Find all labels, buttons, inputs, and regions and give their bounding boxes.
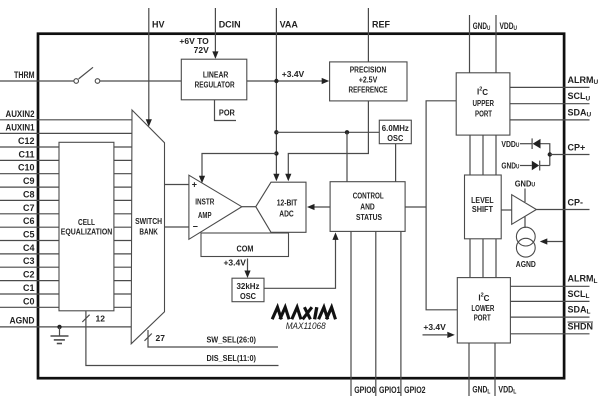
wire C0: [0, 306, 132, 308]
svg-text:DCIN: DCIN: [219, 20, 241, 30]
pin GPIO0 wire: [350, 231, 352, 396]
node VAA/6MHz junction: [274, 130, 278, 134]
wire AUXIN2: [0, 119, 132, 121]
wire THRM to linear regulator: [100, 80, 182, 82]
pin SDAL wire: [510, 316, 589, 318]
svg-text:AUXIN1: AUXIN1: [6, 122, 35, 132]
svg-text:12: 12: [96, 314, 106, 324]
pin SDAU wire: [510, 119, 590, 121]
svg-text:CONTROL: CONTROL: [353, 192, 384, 201]
svg-text:GPIO0: GPIO0: [354, 385, 376, 395]
wire GNDU to buffer: [524, 189, 526, 203]
pin GNDU wire: [469, 15, 471, 73]
svg-text:+2.5V: +2.5V: [359, 76, 378, 85]
pin CP- wire: [536, 209, 589, 211]
wire C10: [0, 173, 132, 175]
wire main vertical bus: [426, 101, 457, 310]
svg-text:GPIO1: GPIO1: [379, 385, 401, 395]
control and status block: [330, 182, 405, 232]
svg-text:CELL: CELL: [78, 218, 95, 227]
diode D2: [532, 161, 539, 170]
pin GNDL wire: [468, 343, 470, 396]
svg-text:+3.4V: +3.4V: [282, 69, 305, 79]
svg-text:C6: C6: [23, 216, 35, 226]
svg-text:REGULATOR: REGULATOR: [195, 81, 235, 90]
arrow into current source head: [540, 238, 548, 244]
svg-text:CP+: CP+: [568, 143, 586, 153]
pin SCLU wire: [510, 103, 590, 105]
wire VAA to 6MHz osc: [276, 131, 379, 133]
wire regulator output +3.4V: [247, 80, 324, 82]
svg-text:MAX11068: MAX11068: [286, 321, 327, 332]
wire upper port to level shift 2: [482, 135, 484, 175]
node VAA/amp junction: [274, 151, 278, 155]
svg-text:BANK: BANK: [139, 227, 158, 236]
wire control to ADC: [313, 206, 331, 208]
wire C9: [0, 186, 132, 188]
pin HV wire: [148, 8, 150, 120]
pin REF wire upper: [367, 8, 369, 62]
svg-text:C0: C0: [23, 296, 35, 306]
svg-text:+: +: [192, 180, 197, 190]
oscillator 32kHz: [232, 278, 264, 302]
svg-text:AUXIN2: AUXIN2: [6, 109, 35, 119]
svg-text:AMP: AMP: [198, 211, 212, 220]
pin GPIO1 wire: [375, 231, 377, 396]
svg-text:LOWER: LOWER: [471, 304, 494, 313]
pin SCLL wire: [510, 300, 589, 302]
wire switch bank to amp + input: [165, 184, 189, 186]
svg-text:AGND: AGND: [10, 315, 35, 325]
wire level shift to lower port 1: [469, 239, 471, 278]
wire REF lower segment: [288, 101, 368, 175]
op-amp INSTR AMP: [189, 175, 242, 239]
svg-text:C7: C7: [23, 203, 35, 213]
svg-text:UPPER: UPPER: [473, 99, 495, 108]
wire C1: [0, 293, 132, 295]
svg-text:C2: C2: [23, 270, 35, 280]
svg-text:AGND: AGND: [516, 259, 536, 269]
svg-text:C3: C3: [23, 256, 35, 266]
svg-text:REF: REF: [372, 20, 391, 30]
wire C11: [0, 159, 132, 161]
svg-text:SHIFT: SHIFT: [472, 205, 493, 214]
svg-text:LINEAR: LINEAR: [203, 70, 229, 79]
pin ALRMU wire: [510, 86, 590, 88]
arrow into ADC right: [307, 204, 315, 210]
chip outline border: [38, 34, 564, 379]
wire upper port to level shift 3: [495, 135, 497, 175]
wire 6MHz osc to control: [395, 144, 397, 182]
svg-text:27: 27: [156, 333, 166, 343]
wire buffer to current source: [524, 217, 526, 229]
pin GPIO2 wire: [400, 231, 402, 396]
wire C2: [0, 280, 132, 282]
logo MAXIM: [272, 307, 301, 319]
svg-text:STATUS: STATUS: [356, 213, 383, 222]
svg-text:12-BIT: 12-BIT: [277, 198, 298, 207]
svg-text:INSTR: INSTR: [195, 198, 214, 207]
node CP+ junction: [548, 152, 552, 156]
svg-text:+3.4V: +3.4V: [223, 258, 246, 268]
svg-text:C5: C5: [23, 230, 35, 240]
pin VDDU wire: [495, 15, 497, 73]
wire C5: [0, 240, 132, 242]
wire C6: [0, 226, 132, 228]
svg-text:DIS_SEL(11:0): DIS_SEL(11:0): [206, 354, 256, 363]
wire control right branch: [405, 206, 426, 208]
svg-text:PRECISION: PRECISION: [350, 65, 387, 74]
level shift block: [465, 175, 502, 239]
svg-text:SWITCH: SWITCH: [135, 217, 162, 226]
svg-text:72V: 72V: [194, 45, 209, 55]
svg-text:CP-: CP-: [568, 198, 584, 208]
node +3.4V junction on VAA: [274, 79, 278, 83]
pin VAA wire: [275, 8, 277, 175]
op-amp CP- buffer: [512, 195, 537, 225]
svg-text:C8: C8: [23, 189, 35, 199]
wire VAA to instr amp top: [202, 154, 276, 177]
arrow into switch bank (HV): [146, 119, 152, 127]
wire diode D2 to CP+ node: [540, 165, 550, 167]
svg-text:PORT: PORT: [475, 110, 492, 119]
arrow into lower port: [447, 332, 455, 338]
svg-text:C4: C4: [23, 243, 35, 253]
svg-text:ADC: ADC: [279, 209, 294, 218]
wire C4: [0, 253, 132, 255]
arrow into control bottom: [332, 232, 338, 240]
pin ALRML wire: [510, 285, 589, 287]
wire upper port to level shift 1: [469, 135, 471, 175]
arrow into linear regulator (DCIN): [212, 51, 218, 59]
pin THRM wire: [0, 80, 74, 82]
svg-text:AND: AND: [360, 203, 375, 212]
diode D1: [531, 138, 533, 149]
svg-text:VAA: VAA: [280, 20, 299, 30]
I2C upper port block: [456, 73, 510, 135]
wire cell-eq DIS_SEL bus: [86, 311, 279, 366]
svg-text:C11: C11: [18, 149, 34, 159]
I2C lower port block: [457, 278, 510, 343]
svg-text:32kHz: 32kHz: [237, 282, 260, 291]
svg-text:SW_SEL(26:0): SW_SEL(26:0): [206, 336, 256, 345]
wire POR stub: [215, 100, 237, 121]
svg-text:+3.4V: +3.4V: [423, 322, 446, 332]
svg-text:C9: C9: [23, 176, 35, 186]
svg-text:C10: C10: [18, 163, 35, 173]
wire level shift to buffer: [501, 209, 512, 211]
cell equalization block: [59, 142, 114, 310]
wire 32kHz to control: [264, 239, 336, 289]
svg-text:HV: HV: [152, 20, 165, 30]
node 6MHz/control junction: [345, 130, 349, 134]
wire C3: [0, 266, 132, 268]
wire to diode D2: [520, 165, 532, 167]
svg-text:ALRML: ALRML: [568, 274, 598, 285]
svg-text:PORT: PORT: [474, 313, 491, 322]
svg-text:I2C: I2C: [477, 87, 488, 97]
current source I1: [516, 227, 535, 246]
bus-width slash 12: [82, 315, 89, 322]
wire diode D1 to CP+ node: [541, 144, 550, 166]
pin CP+ wire: [550, 154, 590, 156]
pin VDDL wire: [494, 343, 496, 396]
switch bank block: [131, 110, 164, 344]
wire SW_SEL bus: [148, 330, 278, 347]
wire +3.4V to 32kHz osc: [247, 259, 249, 272]
svg-text:THRM: THRM: [14, 70, 35, 80]
svg-text:I2C: I2C: [478, 293, 489, 303]
svg-text:C1: C1: [23, 283, 35, 293]
ADC 12-BIT block: [256, 182, 306, 232]
wire arrow into current source: [546, 241, 563, 243]
precision reference U3: [330, 62, 407, 101]
svg-text:GPIO2: GPIO2: [404, 385, 426, 395]
bus-width slash 27: [145, 334, 152, 341]
wire C8: [0, 199, 132, 201]
svg-text:COM: COM: [237, 244, 254, 253]
wire amp output to ADC: [242, 206, 256, 208]
node AGND junction: [57, 325, 61, 329]
wire switch bank to amp - input: [165, 226, 189, 228]
pin SHDN wire: [510, 333, 589, 335]
wire level shift to lower port 2: [482, 239, 484, 278]
svg-text:OSC: OSC: [240, 292, 256, 301]
wire AGND: [0, 326, 132, 328]
arrow into 32kHz osc: [244, 271, 250, 279]
COM block: [201, 233, 289, 257]
linear regulator U2: [181, 59, 247, 100]
arrow into ADC top (REF): [285, 174, 291, 182]
wire to diode D1: [520, 143, 532, 145]
svg-text:LEVEL: LEVEL: [471, 196, 494, 205]
wire C12: [0, 146, 132, 148]
svg-text:POR: POR: [219, 109, 235, 118]
arrow into precision reference: [322, 78, 330, 84]
arrow into instr amp top: [199, 176, 205, 184]
wire AUXIN1: [0, 132, 132, 134]
svg-text:−: −: [193, 222, 198, 232]
wire level shift to lower port 3: [495, 239, 497, 278]
svg-text:OSC: OSC: [387, 134, 403, 143]
wire C7: [0, 213, 132, 215]
svg-text:REFERENCE: REFERENCE: [349, 86, 389, 95]
pin DCIN wire: [214, 8, 216, 53]
svg-text:C12: C12: [18, 136, 35, 146]
svg-text:SHDN: SHDN: [568, 322, 594, 332]
switch S1: [79, 67, 93, 79]
svg-text:6.0MHz: 6.0MHz: [382, 124, 409, 133]
svg-text:EQUALIZATION: EQUALIZATION: [61, 228, 113, 237]
wire 6MHz junction to control: [346, 132, 348, 181]
ground symbol: [59, 327, 61, 336]
arrow into ADC top (VAA): [273, 174, 279, 182]
oscillator 6.0MHz: [379, 120, 411, 144]
wire +3.4V into lower port: [423, 334, 448, 336]
